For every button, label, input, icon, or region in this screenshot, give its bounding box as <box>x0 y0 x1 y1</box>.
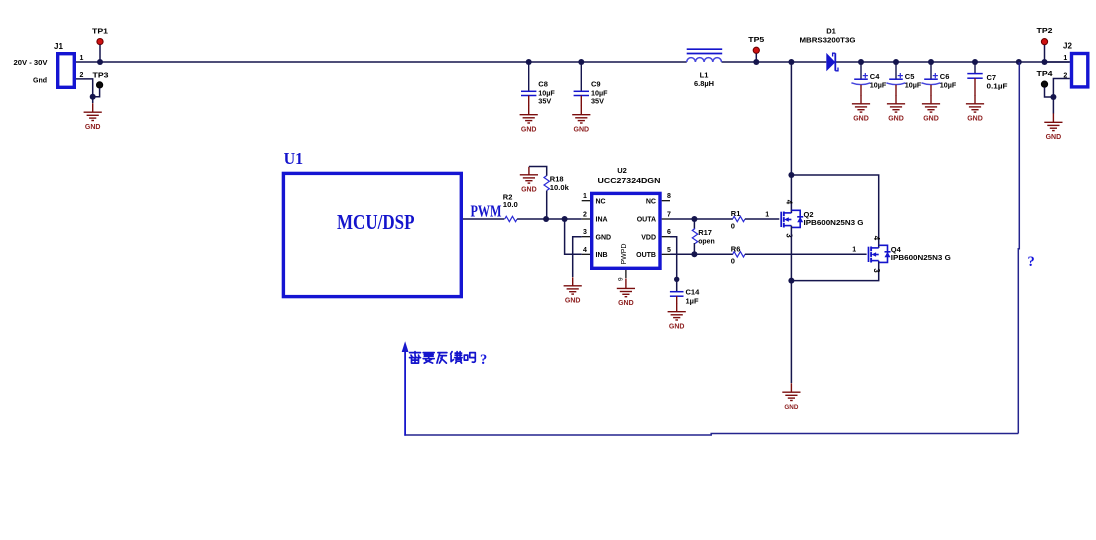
svg-text:OUTB: OUTB <box>636 252 656 259</box>
svg-text:GND: GND <box>669 324 685 331</box>
wire C8 to ground <box>528 96 530 107</box>
capacitor C9 <box>578 59 584 65</box>
svg-text:2: 2 <box>80 72 84 79</box>
svg-text:C8: C8 <box>538 80 548 89</box>
svg-text:GND: GND <box>574 127 590 134</box>
wire J2 pin 2 to ground node <box>1053 79 1069 114</box>
wire TP2 to rail <box>1044 45 1046 62</box>
svg-text:GND: GND <box>1046 134 1062 141</box>
svg-text:0.1µF: 0.1µF <box>987 82 1008 91</box>
test point TP1 <box>97 39 103 45</box>
U2 pin 1 NC <box>582 200 590 202</box>
svg-text:C14: C14 <box>686 288 701 297</box>
node junction J2 ground <box>1050 94 1056 100</box>
svg-text:GND: GND <box>565 298 581 305</box>
node junction low side <box>788 278 794 284</box>
svg-text:3: 3 <box>583 229 587 236</box>
svg-text:GND: GND <box>888 116 904 123</box>
node junction INB tap <box>562 216 568 222</box>
wire R1 to Q2 gate <box>745 218 779 220</box>
svg-text:TP5: TP5 <box>748 35 764 44</box>
test point TP2 <box>1041 39 1047 45</box>
wire C6 to ground <box>930 85 932 96</box>
wire C4 to ground <box>860 85 862 96</box>
diode D1 MBRS3200T3G <box>826 53 835 71</box>
label chinese text need feedback question <box>410 352 476 364</box>
test point TP4 <box>1041 81 1047 87</box>
IC U2 UCC27324DGN <box>592 193 660 268</box>
capacitor C14 1uF <box>670 291 684 293</box>
svg-text:GND: GND <box>596 234 612 241</box>
ground symbol at C5 <box>895 95 897 104</box>
ground symbol at C4 <box>860 95 862 104</box>
inductor L1 core bars <box>687 48 723 50</box>
wire TP3 to ground node <box>93 88 100 97</box>
svg-text:5: 5 <box>667 247 671 254</box>
wire output rail from D1 cathode to J2 pin 1 <box>836 61 1070 63</box>
svg-text:U2: U2 <box>617 166 627 175</box>
svg-text:3: 3 <box>872 268 881 273</box>
svg-text:OUTA: OUTA <box>637 217 656 224</box>
svg-text:10µF: 10µF <box>905 81 922 90</box>
svg-text:GND: GND <box>784 404 798 411</box>
ground symbol at R18 <box>528 167 530 175</box>
transistor Q2 IPB600N25N3 <box>780 212 782 227</box>
U2 pin 6 VDD <box>662 236 670 238</box>
svg-text:6: 6 <box>667 229 671 236</box>
wire feedback bottom run <box>404 434 1018 436</box>
wire C5 to ground <box>895 85 897 96</box>
U2 pin 8 NC <box>662 200 670 202</box>
wire R18 bottom to PWM net <box>546 191 548 219</box>
svg-text:4: 4 <box>583 247 587 254</box>
svg-text:4: 4 <box>785 200 794 205</box>
wire main input rail from J1 pin 1 to inductor L1 <box>76 61 687 63</box>
connector J1 <box>58 54 75 88</box>
wire INB tie <box>565 219 582 254</box>
wire rail from L1 to diode D1 anode <box>722 61 827 63</box>
wire feedback arrow riser <box>404 345 406 436</box>
svg-text:R18: R18 <box>550 174 564 183</box>
svg-text:GND: GND <box>85 124 101 131</box>
wire low side node to ground <box>790 281 792 383</box>
node junction TP2 <box>1042 59 1048 65</box>
resistor R6 <box>733 252 745 257</box>
capacitor C5 polarized 10uF <box>893 59 899 65</box>
node junction Q2/Q4 drain tie <box>788 172 794 178</box>
svg-text:NC: NC <box>596 198 606 205</box>
ground symbol at C8 <box>528 106 530 115</box>
svg-text:D1: D1 <box>826 26 836 35</box>
node junction TP5 <box>753 59 759 65</box>
capacitor C7 0.1uF <box>972 59 978 65</box>
svg-text:PWM: PWM <box>471 202 502 221</box>
svg-text:3: 3 <box>785 233 794 238</box>
wire U2 pin3 to ground <box>573 237 582 277</box>
resistor R1 <box>733 216 745 221</box>
inductor L1 winding <box>687 58 722 62</box>
wire VDD to C14 <box>670 237 677 292</box>
svg-text:R6: R6 <box>731 245 741 254</box>
svg-text:4: 4 <box>872 236 881 241</box>
svg-text:J1: J1 <box>54 42 63 51</box>
node junction TP1 on rail <box>97 59 103 65</box>
svg-text:9: 9 <box>618 277 625 281</box>
node junction feedback tap <box>1016 59 1022 65</box>
wire TP1 to rail <box>99 45 101 62</box>
svg-text:MCU/DSP: MCU/DSP <box>337 210 415 234</box>
wire R17 to OUTB junction <box>693 243 695 254</box>
wire TP4 to ground node <box>1045 87 1054 97</box>
feedback arrow head <box>402 341 409 352</box>
svg-text:GND: GND <box>923 116 939 123</box>
wire C7 to ground <box>974 78 976 96</box>
svg-text:10µF: 10µF <box>940 81 957 90</box>
svg-text:1: 1 <box>583 193 587 200</box>
wire switch node vertical to Q2 drain <box>790 62 792 213</box>
wire OUTA junction to R17 <box>693 219 695 229</box>
node junction R17 bottom <box>691 251 697 257</box>
svg-text:GND: GND <box>618 300 634 307</box>
svg-text:R1: R1 <box>731 209 741 218</box>
wire Q2 source to low-side node <box>790 226 792 281</box>
svg-text:Gnd: Gnd <box>33 76 47 85</box>
svg-text:GND: GND <box>853 116 869 123</box>
wire R6 to Q4 gate <box>745 253 867 255</box>
svg-text:PWPD: PWPD <box>621 244 628 265</box>
node junction at J1 ground <box>90 94 96 100</box>
ground symbol at J2 <box>1052 113 1054 122</box>
svg-text:UCC27324DGN: UCC27324DGN <box>598 176 661 185</box>
wire R2 to INA node <box>517 218 582 220</box>
wire low-side branch to Q4 source <box>791 261 878 281</box>
test point TP5 <box>753 47 759 53</box>
svg-text:C9: C9 <box>591 80 601 89</box>
ground symbol at C6 <box>930 95 932 104</box>
svg-text:6.8µH: 6.8µH <box>694 79 714 88</box>
svg-text:?: ? <box>1028 254 1035 270</box>
ground symbol at C7 <box>974 95 976 104</box>
wire drain branch to Q4 <box>791 175 878 248</box>
svg-text:20V - 30V: 20V - 30V <box>14 58 48 67</box>
svg-text:10.0k: 10.0k <box>550 183 570 192</box>
svg-text:1: 1 <box>765 211 769 218</box>
resistor R2 <box>505 216 517 221</box>
svg-text:INA: INA <box>596 217 608 224</box>
svg-text:8: 8 <box>667 193 671 200</box>
svg-text:7: 7 <box>667 212 671 219</box>
svg-text:C4: C4 <box>870 72 880 81</box>
svg-text:35V: 35V <box>538 97 551 106</box>
wire C14 to ground <box>676 296 678 303</box>
svg-text:MBRS3200T3G: MBRS3200T3G <box>800 35 856 44</box>
wire R18 top to ground symbol <box>529 167 547 176</box>
wire feedback from output node down <box>1018 62 1019 434</box>
U2 pin 5 OUTB <box>662 253 670 255</box>
block U1 MCU/DSP <box>283 173 461 296</box>
resistor R18 pullup <box>544 176 549 191</box>
connector J2 <box>1072 54 1088 87</box>
svg-text:C5: C5 <box>905 72 915 81</box>
svg-text:INB: INB <box>596 252 608 259</box>
svg-text:0: 0 <box>731 221 735 230</box>
ground symbol at power stage <box>790 383 792 392</box>
svg-text:IPB600N25N3 G: IPB600N25N3 G <box>891 253 951 262</box>
capacitor C6 polarized 10uF <box>928 59 934 65</box>
U2 pin 2 INA <box>582 218 590 220</box>
ground symbol at U2 pin3 <box>572 277 574 286</box>
svg-text:open: open <box>698 236 715 245</box>
wire U1 PWM output to resistor R2 <box>463 218 504 220</box>
svg-text:10.0: 10.0 <box>503 200 518 209</box>
svg-text:0: 0 <box>731 257 735 266</box>
node junction R17 top <box>691 216 697 222</box>
svg-text:C7: C7 <box>987 73 997 82</box>
svg-text:10µF: 10µF <box>870 81 887 90</box>
svg-text:35V: 35V <box>591 97 604 106</box>
node junction switch node on rail <box>788 59 794 65</box>
svg-text:GND: GND <box>521 127 537 134</box>
wire J2 pin1 from TP2 junction <box>1045 61 1070 63</box>
ground symbol at J1 <box>92 103 94 112</box>
svg-text:VDD: VDD <box>641 234 656 241</box>
svg-text:1µF: 1µF <box>686 296 699 305</box>
wire OUTB to R6 <box>670 253 733 255</box>
svg-text:TP4: TP4 <box>1037 69 1054 78</box>
svg-text:GND: GND <box>967 116 983 123</box>
ground symbol at U2 PWPD <box>625 278 627 288</box>
svg-text:1: 1 <box>1063 55 1067 62</box>
capacitor C8 <box>526 59 532 65</box>
U2 pin 3 GND <box>582 236 590 238</box>
wire TP5 to rail <box>755 53 757 62</box>
svg-text:NC: NC <box>646 198 656 205</box>
wire C9 to ground <box>580 96 582 107</box>
svg-text:U1: U1 <box>284 149 304 168</box>
svg-text:TP3: TP3 <box>93 71 109 80</box>
svg-text:J2: J2 <box>1063 42 1072 51</box>
svg-text:2: 2 <box>583 212 587 219</box>
test point TP3 <box>97 82 103 88</box>
resistor R17 open <box>692 229 697 244</box>
svg-text:?: ? <box>480 352 487 368</box>
ground symbol at C9 <box>580 106 582 115</box>
svg-text:TP2: TP2 <box>1037 26 1053 35</box>
wire J1 pin 2 to ground net <box>76 79 93 103</box>
capacitor C4 polarized 10uF <box>858 59 864 65</box>
transistor Q4 IPB600N25N3 <box>868 247 870 262</box>
svg-text:IPB600N25N3 G: IPB600N25N3 G <box>804 218 864 227</box>
svg-text:C6: C6 <box>940 72 950 81</box>
ground symbol at C14 <box>676 303 678 312</box>
svg-text:TP1: TP1 <box>92 27 108 36</box>
svg-text:GND: GND <box>521 187 537 194</box>
node junction R18 tap <box>543 216 549 222</box>
wire OUTA to R1 <box>670 218 733 220</box>
U2 pin 7 OUTA <box>662 218 670 220</box>
svg-text:1: 1 <box>80 55 84 62</box>
svg-text:1: 1 <box>852 247 856 254</box>
U2 pin 4 INB <box>582 253 590 255</box>
